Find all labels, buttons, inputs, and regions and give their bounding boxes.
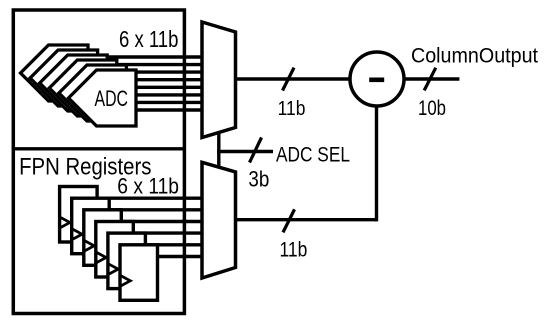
svg-text:10b: 10b (418, 96, 446, 120)
wire FPN register output 1 (85, 196, 206, 199)
wire ADC bus bit 2 (88, 63, 206, 66)
ADC block 1 (21, 45, 89, 101)
register 2 clock triangle (71, 228, 82, 240)
svg-text:ADC SEL: ADC SEL (276, 143, 350, 166)
multiplexer U2 (FPN mux) (202, 162, 236, 278)
wire mux1 output to subtractor (234, 77, 355, 80)
ADC block 2 (30, 50, 98, 106)
wire select stub between muxes (217, 130, 220, 170)
register 3 (84, 210, 122, 265)
bus slash 11b top (283, 68, 295, 91)
ADC block 5 (59, 65, 127, 121)
outer block boundary box (13, 10, 184, 314)
register 4 clock triangle (95, 252, 106, 264)
wire ColumnOutput (395, 77, 459, 80)
register 5 (108, 233, 145, 289)
ADC block 3 (40, 55, 108, 111)
svg-text:11b: 11b (278, 97, 306, 120)
FPN Registers section divider (13, 147, 184, 150)
ADC block 6 (69, 70, 137, 126)
svg-text:ADC: ADC (95, 86, 129, 111)
register 2 (72, 198, 110, 254)
register 1 (60, 187, 98, 243)
bus slash 10b (424, 68, 436, 91)
wire mux2 output horizontal (234, 218, 377, 221)
wire ADC bus bit 8 (88, 108, 206, 111)
wire FPN register output 3 (85, 220, 206, 223)
subtractor minus sign (369, 78, 384, 83)
bus slash ADC SEL 3b (250, 138, 262, 163)
register 5 clock triangle (107, 263, 118, 275)
wire FPN register output 2 (85, 208, 206, 211)
wire FPN register output 6 (85, 255, 206, 258)
svg-text:11b: 11b (280, 238, 308, 261)
multiplexer U1 (ADC mux) (202, 22, 236, 138)
wire ADC bus bit 1 (88, 55, 206, 58)
register 1 clock triangle (59, 217, 70, 229)
wire ADC bus bit 7 (88, 101, 206, 104)
ADC block 4 (49, 60, 117, 116)
wire ADC bus bit 5 (88, 86, 206, 89)
svg-text:3b: 3b (248, 166, 269, 191)
svg-text:6 x 11b: 6 x 11b (119, 26, 178, 52)
wire FPN register output 4 (85, 231, 206, 234)
register 6 clock triangle (120, 275, 131, 287)
subtractor U3 (350, 52, 404, 106)
wire ADC bus bit 4 (88, 78, 206, 81)
wire ADC bus bit 6 (88, 93, 206, 96)
wire mux2 output vertical to subtractor (375, 100, 378, 221)
wire FPN register output 5 (85, 243, 206, 246)
wire ADC SEL (217, 150, 273, 153)
bus slash 11b bottom (283, 209, 295, 232)
register 4 (96, 222, 134, 278)
svg-text:6 x 11b: 6 x 11b (117, 174, 179, 199)
svg-text:ColumnOutput: ColumnOutput (411, 44, 538, 67)
wire ADC bus bit 3 (88, 70, 206, 73)
register 6 (120, 245, 158, 300)
register 3 clock triangle (83, 240, 94, 252)
